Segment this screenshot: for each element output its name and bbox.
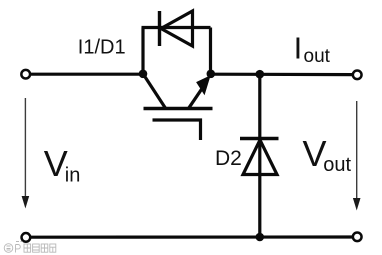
- svg-text:I: I: [294, 31, 303, 66]
- transistor Q1 left leg: [143, 74, 166, 109]
- svg-text:out: out: [323, 154, 351, 176]
- wire D1 right vertical: [209, 28, 212, 75]
- wire D1 left vertical: [141, 28, 144, 75]
- terminal top-right: [353, 70, 362, 79]
- node right (junction dot): [207, 70, 216, 79]
- terminal bottom-left: [22, 233, 31, 242]
- diode D2 cathode bar: [240, 137, 279, 140]
- arrow Vin: [24, 98, 26, 198]
- svg-text:out: out: [304, 46, 331, 67]
- transistor Q1 gate: [153, 120, 201, 140]
- svg-text:I1/D1: I1/D1: [78, 36, 126, 58]
- transistor Q1 right leg with arrow: [189, 89, 202, 108]
- svg-text:in: in: [65, 165, 81, 187]
- svg-text:D2: D2: [215, 147, 242, 170]
- diode D1 cathode bar: [158, 11, 161, 46]
- node left (junction dot): [139, 70, 148, 79]
- transistor Q1 bar: [144, 107, 213, 111]
- wire bottom horizontal: [31, 235, 353, 238]
- diode D1 triangle: [161, 11, 193, 46]
- node D2 top junction: [255, 70, 264, 79]
- watermark: [4, 242, 56, 253]
- wire D1 horizontal through diode: [142, 26, 211, 29]
- diode D2 triangle: [243, 140, 277, 175]
- wire top-right horizontal: [211, 73, 353, 77]
- wire D2 vertical through diode: [258, 74, 261, 237]
- terminal top-left: [21, 70, 30, 79]
- arrow Vout: [356, 101, 358, 200]
- node D2 bottom junction: [255, 233, 264, 242]
- terminal bottom-right: [353, 232, 362, 241]
- wire top-left horizontal: [31, 73, 143, 76]
